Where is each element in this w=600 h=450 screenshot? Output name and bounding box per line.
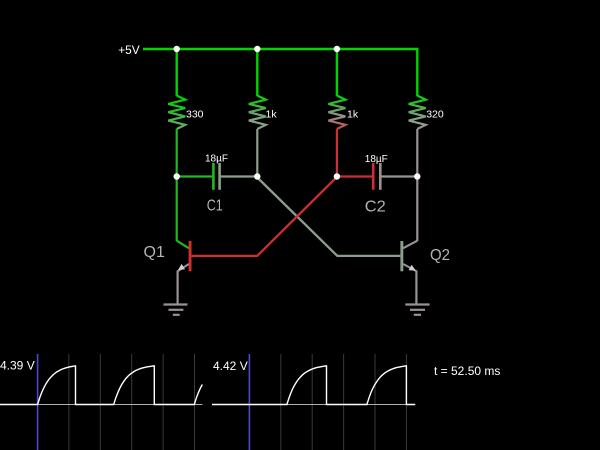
- svg-text:C1: C1: [207, 198, 223, 215]
- svg-text:320: 320: [426, 108, 444, 120]
- svg-text:1k: 1k: [347, 108, 359, 120]
- svg-text:1k: 1k: [266, 108, 278, 120]
- svg-text:Q2: Q2: [430, 247, 450, 264]
- svg-text:4.42 V: 4.42 V: [213, 359, 248, 373]
- svg-text:330: 330: [186, 108, 204, 120]
- svg-text:18µF: 18µF: [365, 154, 388, 165]
- svg-text:4.39 V: 4.39 V: [0, 358, 35, 372]
- svg-text:t = 52.50 ms: t = 52.50 ms: [434, 364, 500, 378]
- svg-text:+5V: +5V: [118, 43, 139, 57]
- svg-text:18µF: 18µF: [205, 154, 228, 165]
- svg-text:Q1: Q1: [144, 244, 165, 261]
- svg-text:C2: C2: [365, 199, 386, 216]
